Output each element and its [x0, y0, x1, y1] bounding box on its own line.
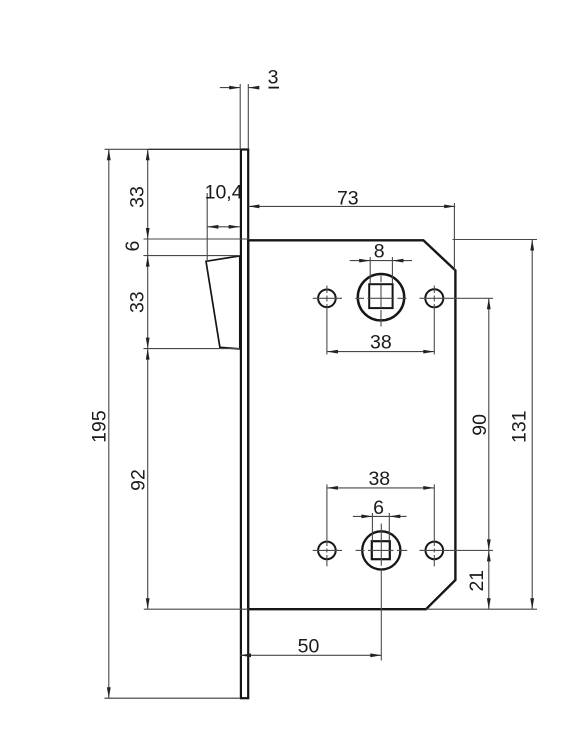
latch bolt [206, 256, 240, 349]
svg-text:90: 90 [469, 414, 491, 436]
svg-text:8: 8 [374, 241, 385, 263]
top right screw hole [425, 289, 443, 307]
bottom left screw hole [318, 542, 336, 560]
dimension 8 [350, 241, 412, 285]
svg-text:92: 92 [127, 469, 149, 491]
dimension 3 [220, 67, 279, 150]
dimension 73 [248, 187, 455, 270]
chain dimension 92 [127, 349, 249, 610]
svg-text:73: 73 [337, 187, 359, 209]
dimension 50 [240, 636, 381, 658]
top spindle hole circle [358, 274, 404, 320]
top spindle square [369, 284, 392, 308]
bottom right screw hole [426, 542, 444, 560]
svg-text:3: 3 [268, 67, 279, 89]
chain dimension 6 [122, 239, 240, 256]
svg-text:10,4: 10,4 [205, 181, 243, 203]
svg-text:33: 33 [126, 186, 148, 208]
dimension 195 [88, 149, 240, 698]
bottom spindle hole circle [362, 531, 400, 569]
bottom spindle square [372, 541, 390, 559]
top left screw hole [318, 290, 336, 308]
chain dimension 33 top [126, 149, 249, 239]
centerlines bottom holes [313, 484, 493, 660]
dimension 38 top [327, 331, 434, 353]
svg-text:6: 6 [373, 497, 384, 519]
dimension 131 [426, 240, 537, 610]
faceplate [241, 150, 248, 699]
lock body outline [248, 240, 455, 609]
svg-text:38: 38 [368, 468, 390, 490]
svg-text:195: 195 [88, 410, 110, 443]
svg-text:6: 6 [122, 241, 144, 252]
svg-text:38: 38 [370, 331, 392, 353]
svg-text:33: 33 [126, 291, 148, 313]
dimension 90 [469, 298, 491, 550]
dimension 10,4 [205, 181, 243, 261]
dimension 6 bottom [353, 497, 407, 542]
svg-text:131: 131 [509, 410, 531, 443]
svg-text:50: 50 [298, 636, 320, 658]
centerlines top holes [313, 276, 493, 355]
dimension 21 [466, 550, 491, 609]
dimension 38 bottom [327, 468, 434, 490]
chain dimension 33 middle [126, 256, 240, 349]
svg-text:21: 21 [466, 570, 488, 592]
